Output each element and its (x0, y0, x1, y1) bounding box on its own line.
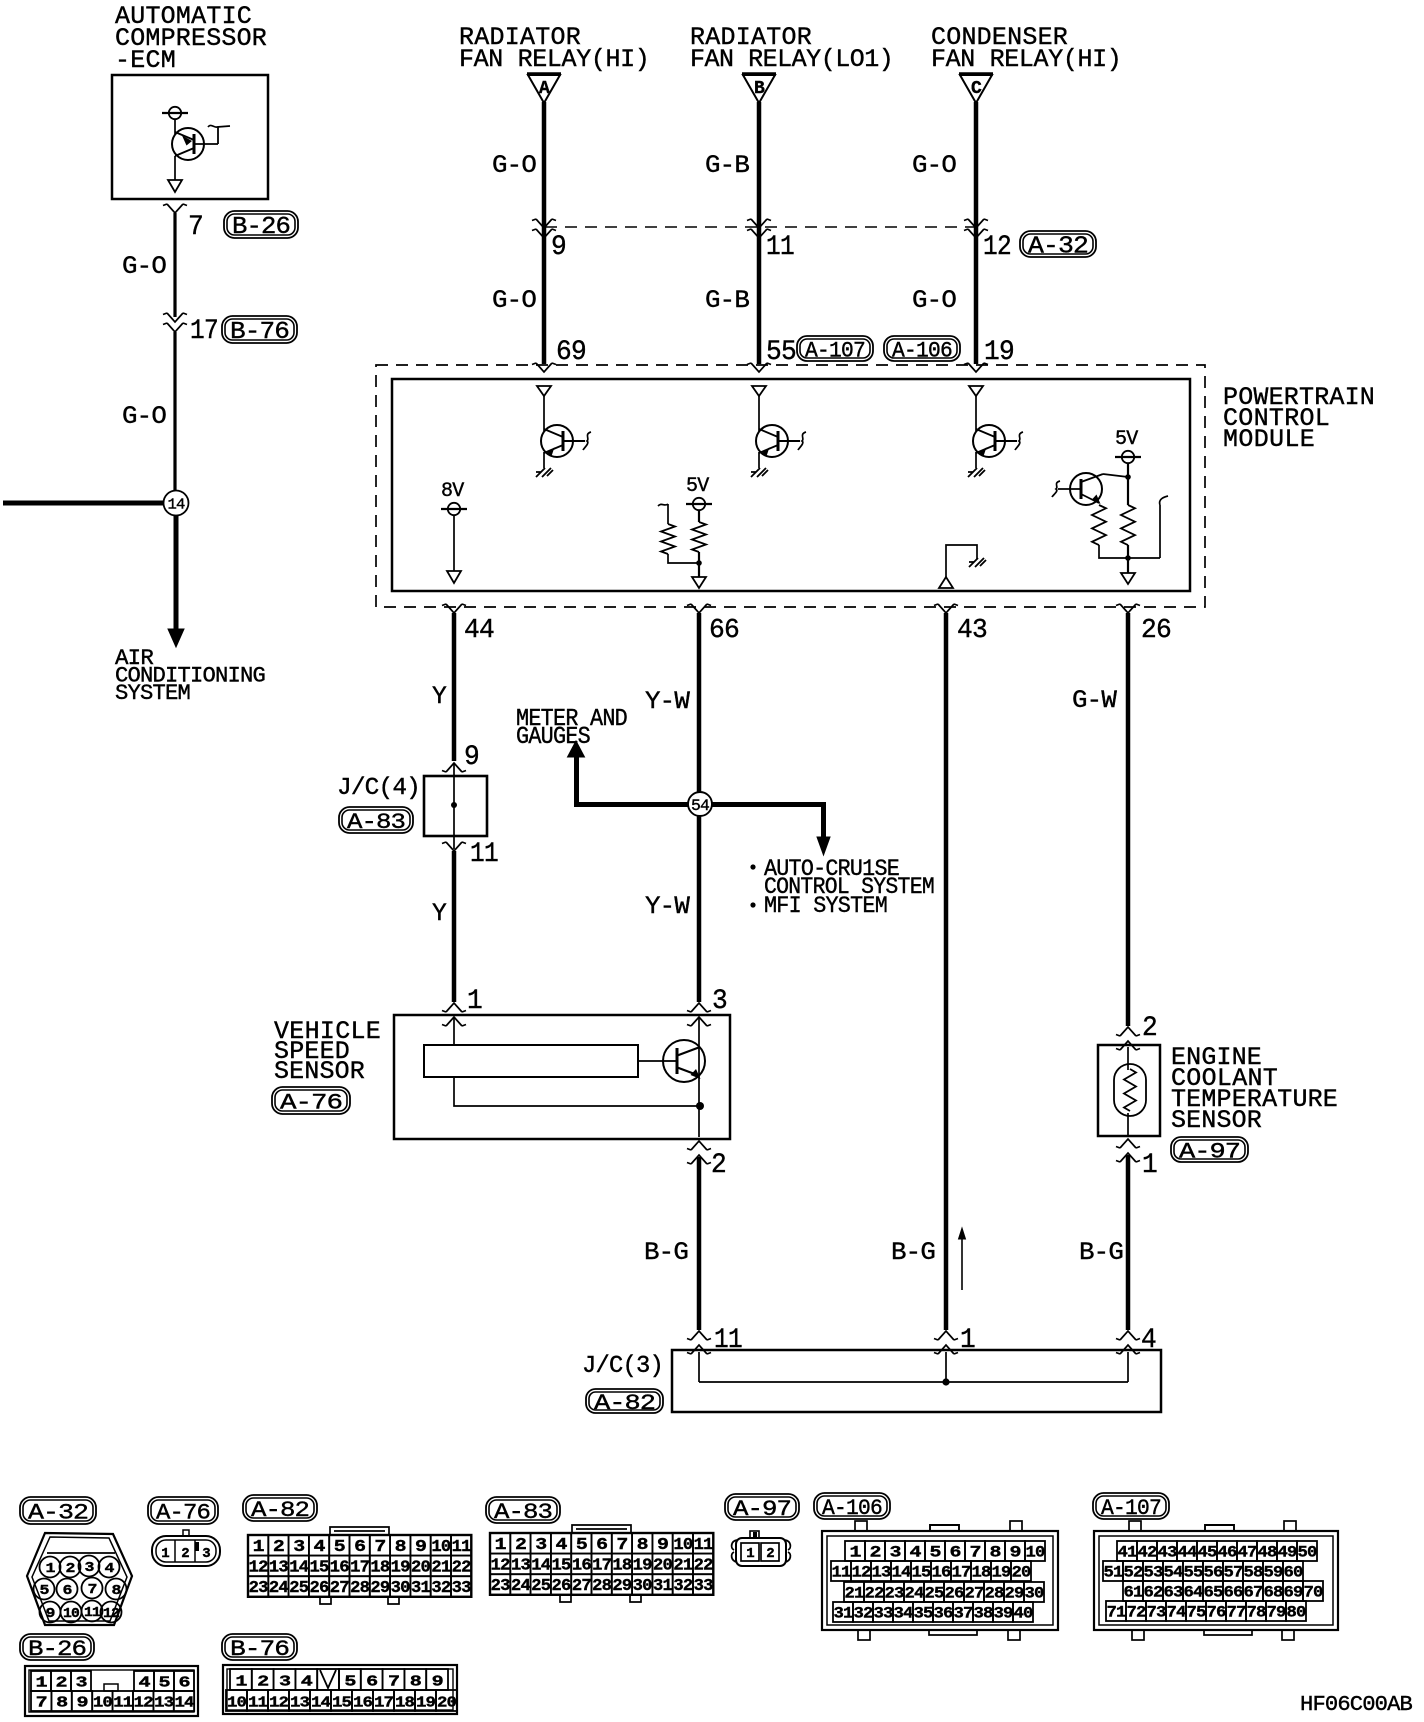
5V supply right (1115, 428, 1141, 463)
wire J/C3 bus (699, 1381, 1128, 1383)
connector label A-82 (243, 1495, 317, 1523)
svg-text:20: 20 (437, 1694, 457, 1711)
svg-text:2: 2 (257, 1673, 269, 1690)
svg-text:39: 39 (994, 1604, 1013, 1622)
svg-text:16: 16 (572, 1557, 592, 1576)
wire B-G pin26 lower (1126, 1155, 1131, 1330)
svg-text:22: 22 (865, 1584, 884, 1602)
connector label A-106 (814, 1493, 890, 1521)
svg-text:18: 18 (395, 1694, 415, 1711)
svg-text:22: 22 (694, 1557, 714, 1576)
8V supply (441, 480, 467, 515)
svg-text:G-W: G-W (1072, 686, 1117, 715)
svg-text:80: 80 (1287, 1603, 1306, 1621)
svg-text:51: 51 (1104, 1563, 1123, 1581)
wire 8V to pin 44 (453, 515, 455, 571)
wire down to air conditioning system (174, 516, 179, 632)
connector label A-107 (1093, 1493, 1169, 1521)
svg-text:53: 53 (1144, 1563, 1163, 1581)
resistor R4 (left, from Q4 emitter) (1092, 505, 1106, 545)
svg-text:27: 27 (965, 1584, 984, 1602)
connector label A-83 (486, 1497, 560, 1525)
wire VSS pin1 internal lower (454, 1077, 699, 1106)
svg-text:60: 60 (1284, 1563, 1303, 1581)
VSS pin 3 entry chevrons (687, 1003, 711, 1026)
PCM exit chevron pin 43 (934, 604, 958, 613)
svg-text:6: 6 (63, 1583, 72, 1599)
svg-text:Y: Y (432, 899, 447, 928)
wire A G-O upper (542, 102, 547, 364)
svg-text:9: 9 (77, 1694, 89, 1711)
svg-text:1: 1 (235, 1673, 247, 1690)
svg-text:4: 4 (139, 1674, 151, 1691)
connector label A-32 (20, 1497, 96, 1525)
svg-text:FAN RELAY(HI): FAN RELAY(HI) (931, 45, 1121, 74)
svg-text:37: 37 (954, 1604, 973, 1622)
svg-text:9: 9 (46, 1606, 55, 1622)
svg-text:68: 68 (1264, 1583, 1283, 1601)
transistor Q3 (cond fan hi) (973, 425, 1023, 457)
svg-text:A: A (539, 79, 550, 99)
svg-text:28: 28 (350, 1579, 370, 1598)
label POWERTRAIN CONTROL MODULE (1223, 383, 1374, 454)
wire R4 bottom (1099, 545, 1160, 558)
svg-text:8: 8 (637, 1536, 649, 1555)
svg-text:38: 38 (974, 1604, 993, 1622)
svg-text:12: 12 (249, 1559, 269, 1578)
svg-text:31: 31 (834, 1604, 853, 1622)
svg-text:1: 1 (495, 1536, 507, 1555)
svg-text:MODULE: MODULE (1223, 425, 1314, 454)
junction circle 54 (688, 792, 712, 816)
resistor thermistor ECT (1124, 1069, 1136, 1111)
svg-text:2: 2 (66, 1561, 75, 1577)
svg-text:A-76: A-76 (156, 1500, 210, 1525)
connector label A-83 inline (339, 807, 413, 835)
svg-text:12: 12 (491, 1557, 511, 1576)
svg-text:29: 29 (1005, 1584, 1024, 1602)
svg-text:66: 66 (1224, 1583, 1243, 1601)
svg-text:15: 15 (310, 1559, 330, 1578)
svg-text:1: 1 (46, 1561, 55, 1577)
svg-text:22: 22 (452, 1559, 472, 1578)
connector 11 chevrons on wire B (747, 219, 771, 238)
svg-text:11: 11 (766, 232, 794, 263)
svg-text:65: 65 (1204, 1583, 1223, 1601)
svg-text:32: 32 (854, 1604, 873, 1622)
svg-text:G-O: G-O (122, 402, 166, 431)
svg-text:8: 8 (395, 1538, 407, 1557)
svg-text:Y: Y (432, 682, 447, 711)
resistor R3 (right) (1121, 505, 1135, 545)
connector B-26 housing (25, 1666, 198, 1716)
svg-text:79: 79 (1267, 1603, 1286, 1621)
svg-text:B: B (754, 79, 765, 99)
svg-text:HF06C00AB: HF06C00AB (1300, 1694, 1412, 1717)
label AUTOMATIC COMPRESSOR-ECM (115, 2, 267, 75)
svg-text:B-76: B-76 (230, 1637, 289, 1662)
svg-text:6: 6 (596, 1536, 608, 1555)
hook to internal circuit left resistor (658, 504, 668, 524)
svg-text:23: 23 (491, 1577, 511, 1596)
connector label A-76 inline (272, 1087, 350, 1115)
svg-text:30: 30 (391, 1579, 411, 1598)
svg-text:45: 45 (1198, 1543, 1217, 1561)
wire to pin 26 triangle (1127, 545, 1129, 573)
transistor ECM (PNP) (172, 125, 230, 160)
svg-text:32: 32 (431, 1579, 451, 1598)
junction dot Q4 collector (1125, 474, 1131, 480)
svg-text:56: 56 (1204, 1563, 1223, 1581)
wire B-G pin66 lower (697, 1157, 702, 1330)
connector 11 chevron J/C4 (442, 842, 466, 851)
svg-text:8: 8 (56, 1694, 68, 1711)
svg-text:3: 3 (535, 1536, 547, 1555)
svg-text:24: 24 (269, 1579, 289, 1598)
svg-text:5: 5 (930, 1543, 941, 1561)
svg-text:B-G: B-G (644, 1238, 688, 1267)
svg-text:33: 33 (452, 1579, 472, 1598)
svg-text:14: 14 (892, 1563, 912, 1581)
svg-text:A-107: A-107 (1101, 1496, 1161, 1521)
svg-text:75: 75 (1187, 1603, 1206, 1621)
connector A-106 housing (822, 1521, 1058, 1640)
svg-text:2: 2 (711, 1150, 726, 1181)
svg-text:73: 73 (1147, 1603, 1166, 1621)
svg-text:74: 74 (1167, 1603, 1187, 1621)
svg-text:G-O: G-O (492, 286, 536, 315)
power feed symbol in ECM (162, 107, 188, 119)
PCM pin 69 chevron (532, 363, 556, 372)
svg-text:3: 3 (85, 1560, 94, 1576)
svg-text:1: 1 (850, 1543, 861, 1561)
svg-text:3: 3 (76, 1674, 88, 1691)
connector label B-26 inline (224, 211, 298, 241)
svg-text:5: 5 (576, 1536, 588, 1555)
svg-text:26: 26 (552, 1577, 572, 1596)
wire Q4 collector to 5V node (1103, 474, 1128, 477)
svg-text:3: 3 (293, 1538, 305, 1557)
svg-text:1: 1 (960, 1325, 975, 1356)
svg-text:8V: 8V (441, 480, 464, 503)
svg-text:A-32: A-32 (28, 1500, 88, 1525)
junction dot J/C4 (451, 802, 457, 808)
svg-text:17: 17 (952, 1563, 971, 1581)
junction block J/C(4) box (424, 776, 487, 836)
svg-text:4: 4 (314, 1538, 326, 1557)
VSS pin 1 entry chevrons (442, 1003, 466, 1026)
svg-text:7: 7 (88, 1582, 97, 1598)
svg-text:A-106: A-106 (892, 338, 952, 363)
connector triangle B (742, 74, 776, 103)
junction circle 14 (164, 491, 189, 516)
svg-text:52: 52 (1124, 1563, 1143, 1581)
svg-text:B-26: B-26 (28, 1637, 86, 1662)
svg-text:19: 19 (416, 1694, 436, 1711)
svg-text:20: 20 (1012, 1563, 1031, 1581)
svg-text:14: 14 (168, 497, 186, 514)
svg-text:SENSOR: SENSOR (274, 1057, 365, 1086)
output triangle ECM (168, 180, 182, 192)
svg-text:1: 1 (253, 1538, 265, 1557)
svg-text:18: 18 (370, 1559, 390, 1578)
connector label A-107 inline (797, 336, 873, 363)
wire G-O ECM segment1 (173, 213, 176, 317)
svg-text:30: 30 (633, 1577, 653, 1596)
dashed connector line A-32 (545, 226, 976, 228)
svg-text:64: 64 (1184, 1583, 1204, 1601)
svg-text:17: 17 (350, 1559, 370, 1578)
svg-text:33: 33 (694, 1577, 714, 1596)
J/C3 pin 4 entry chevrons (1116, 1331, 1140, 1354)
ECT pin 1 exit chevrons (1116, 1139, 1140, 1162)
svg-text:5: 5 (159, 1674, 171, 1691)
svg-text:12: 12 (983, 232, 1011, 263)
svg-text:5V: 5V (1115, 428, 1138, 451)
svg-text:4: 4 (105, 1561, 114, 1577)
J/C3 pin 1 entry chevrons (934, 1331, 958, 1354)
svg-text:12: 12 (852, 1563, 871, 1581)
svg-text:17: 17 (592, 1557, 612, 1576)
svg-text:4: 4 (556, 1536, 568, 1555)
arrow to auto-cruise/MFI (817, 837, 830, 855)
ground Q1 (543, 452, 545, 468)
connector A-76 housing (152, 1530, 220, 1566)
svg-text:1: 1 (161, 1546, 169, 1562)
transistor Q5 VSS (663, 1040, 705, 1082)
svg-text:A-106: A-106 (822, 1496, 882, 1521)
label ENGINE COOLANT TEMPERATURE SENSOR (1171, 1043, 1337, 1135)
PCM exit chevron pin 26 (1116, 604, 1140, 613)
wire through J/C4 (453, 763, 455, 849)
svg-text:43: 43 (957, 616, 987, 646)
svg-text:15: 15 (552, 1557, 572, 1576)
wire J/C3 internal 1 (945, 1352, 947, 1382)
svg-text:MFI SYSTEM: MFI SYSTEM (764, 893, 887, 919)
svg-text:9: 9 (464, 742, 479, 773)
svg-text:A-83: A-83 (494, 1500, 552, 1525)
connector 9 chevron J/C4 (442, 763, 466, 772)
svg-text:B-26: B-26 (232, 214, 290, 241)
ECT pin 2 entry chevrons (1116, 1027, 1140, 1050)
svg-text:A-82: A-82 (594, 1391, 655, 1416)
junction block J/C(3) box (672, 1350, 1161, 1412)
wire pin 19 to transistor (975, 396, 977, 431)
svg-text:6: 6 (179, 1674, 191, 1691)
inline connector 17 chevrons (163, 313, 187, 332)
connector B-76 housing (223, 1665, 457, 1714)
svg-text:A-32: A-32 (1028, 234, 1088, 261)
transistor Q1 (rad fan hi) (541, 425, 591, 457)
output triangle pin 66 (692, 577, 706, 588)
connector label B-76 inline (222, 316, 297, 346)
svg-text:-ECM: -ECM (115, 46, 175, 75)
VSS pin 2 exit chevrons (687, 1141, 711, 1164)
svg-text:10: 10 (431, 1538, 451, 1557)
svg-text:13: 13 (290, 1694, 310, 1711)
connector triangle C (959, 74, 993, 103)
wire ECT internal top (1127, 1047, 1129, 1070)
svg-text:3: 3 (712, 986, 727, 1017)
svg-text:40: 40 (1014, 1604, 1033, 1622)
svg-text:7: 7 (616, 1536, 628, 1555)
svg-text:G-O: G-O (912, 151, 956, 180)
wire VSS pin1 internal upper (453, 1017, 455, 1045)
svg-text:11: 11 (832, 1563, 851, 1581)
svg-text:35: 35 (914, 1604, 933, 1622)
PCM pin 55 chevron (747, 363, 771, 372)
svg-text:11: 11 (248, 1694, 268, 1711)
VSS pickup element box (424, 1045, 638, 1077)
connector B-76 keyway (317, 1669, 339, 1690)
output triangle pin 26 (1121, 573, 1135, 584)
wire G-O ECM segment2 (173, 332, 176, 491)
PCM pin 19 input triangle (969, 386, 983, 396)
svg-text:2: 2 (181, 1546, 189, 1562)
svg-text:28: 28 (592, 1577, 612, 1596)
svg-text:25: 25 (531, 1577, 551, 1596)
svg-text:7: 7 (374, 1538, 386, 1557)
svg-text:3: 3 (202, 1546, 210, 1562)
svg-text:14: 14 (311, 1694, 331, 1711)
svg-text:2: 2 (1142, 1013, 1157, 1044)
svg-text:J/C(3): J/C(3) (582, 1353, 663, 1380)
svg-text:6: 6 (366, 1673, 378, 1690)
svg-text:10: 10 (63, 1606, 79, 1622)
svg-text:1: 1 (1142, 1150, 1157, 1181)
svg-text:23: 23 (885, 1584, 904, 1602)
svg-text:62: 62 (1144, 1583, 1163, 1601)
junction dot R3/R4 (1125, 555, 1131, 561)
wire thick to air conditioning branch (3, 501, 164, 506)
svg-text:11: 11 (470, 839, 498, 870)
label VEHICLE SPEED SENSOR (274, 1017, 380, 1086)
svg-text:7: 7 (188, 212, 203, 243)
wire VSS pin3 internal (698, 1017, 700, 1106)
connector label A-32 inline (1020, 231, 1096, 261)
svg-text:7: 7 (388, 1673, 399, 1690)
svg-text:12: 12 (103, 1606, 119, 1622)
svg-text:27: 27 (572, 1577, 592, 1596)
svg-text:4: 4 (910, 1543, 922, 1561)
svg-text:13: 13 (511, 1557, 531, 1576)
svg-text:Y-W: Y-W (645, 892, 690, 921)
PCM dashed boundary box (376, 365, 1205, 607)
svg-text:61: 61 (1124, 1583, 1143, 1601)
svg-text:24: 24 (905, 1584, 925, 1602)
svg-text:76: 76 (1207, 1603, 1226, 1621)
svg-text:17: 17 (374, 1694, 393, 1711)
connector A-82 housing (320, 1527, 399, 1604)
label CONDENSER FAN RELAY(HI) (931, 23, 1121, 74)
svg-text:G-O: G-O (492, 151, 536, 180)
svg-text:10: 10 (1026, 1543, 1045, 1561)
transistor Q2 (rad fan lo) (756, 425, 806, 457)
svg-text:11: 11 (113, 1694, 133, 1711)
svg-text:7: 7 (970, 1543, 981, 1561)
connector label B-76 (222, 1634, 297, 1662)
svg-text:6: 6 (354, 1538, 366, 1557)
svg-text:34: 34 (894, 1604, 914, 1622)
internal hook pin 43 (946, 545, 977, 577)
svg-text:28: 28 (985, 1584, 1004, 1602)
label AIR CONDITIONING SYSTEM (115, 646, 265, 706)
svg-text:3: 3 (890, 1543, 901, 1561)
wire B-G pin43 (944, 613, 949, 1330)
svg-text:17: 17 (190, 316, 218, 347)
wire ECT internal bottom (1127, 1113, 1129, 1135)
wire VSS base (638, 1060, 663, 1062)
svg-text:2: 2 (56, 1674, 68, 1691)
svg-text:2: 2 (870, 1543, 881, 1561)
svg-text:11: 11 (694, 1536, 714, 1555)
PCM exit chevron pin 66 (687, 604, 711, 613)
svg-text:G-O: G-O (122, 252, 166, 281)
wire Y pin44 upper (452, 613, 457, 761)
svg-text:15: 15 (332, 1694, 352, 1711)
svg-text:1: 1 (467, 986, 482, 1017)
svg-text:58: 58 (1244, 1563, 1263, 1581)
wire R2 bottom join (668, 554, 699, 563)
svg-text:55: 55 (766, 337, 796, 368)
svg-text:77: 77 (1227, 1603, 1246, 1621)
wire G-W pin26 (1126, 613, 1131, 1026)
label RADIATOR FAN RELAY(LO1) (690, 23, 893, 74)
svg-text:21: 21 (845, 1584, 864, 1602)
svg-text:29: 29 (612, 1577, 632, 1596)
svg-text:71: 71 (1107, 1603, 1126, 1621)
connector 9 chevrons on wire A (532, 219, 556, 238)
svg-text:31: 31 (411, 1579, 431, 1598)
svg-text:9: 9 (551, 232, 566, 263)
svg-text:50: 50 (1298, 1543, 1317, 1561)
svg-text:10: 10 (227, 1694, 247, 1711)
svg-text:67: 67 (1244, 1583, 1263, 1601)
svg-text:8: 8 (112, 1583, 121, 1599)
svg-text:26: 26 (1141, 616, 1171, 646)
svg-text:B-76: B-76 (230, 319, 289, 346)
wire B G-B upper (757, 102, 762, 364)
svg-text:2: 2 (515, 1536, 527, 1555)
connector label A-106 inline (884, 336, 960, 363)
svg-text:23: 23 (249, 1579, 269, 1598)
transistor Q4 (coolant temp input) (1052, 473, 1103, 505)
svg-text:69: 69 (556, 337, 586, 368)
wire VSS to pin2 (698, 1106, 700, 1137)
wire ECM internal (174, 119, 176, 134)
svg-text:72: 72 (1127, 1603, 1146, 1621)
PCM pin 19 chevron (964, 363, 988, 372)
connector A-83 housing (560, 1525, 641, 1602)
svg-text:20: 20 (653, 1557, 673, 1576)
connector triangle A (527, 74, 561, 103)
svg-text:70: 70 (1304, 1583, 1323, 1601)
engine coolant temperature sensor box (1098, 1045, 1160, 1136)
svg-text:4: 4 (1141, 1325, 1156, 1356)
svg-text:21: 21 (673, 1557, 693, 1576)
label RADIATOR FAN RELAY(HI) (459, 23, 649, 74)
svg-text:C: C (971, 79, 982, 99)
connector label B-26 (20, 1634, 94, 1662)
J/C3 pin 11 entry chevrons (687, 1331, 711, 1354)
svg-text:10: 10 (93, 1694, 113, 1711)
svg-text:49: 49 (1278, 1543, 1297, 1561)
svg-text:44: 44 (1178, 1543, 1198, 1561)
svg-text:SYSTEM: SYSTEM (115, 681, 190, 706)
svg-text:69: 69 (1284, 1583, 1303, 1601)
svg-text:2: 2 (766, 1546, 774, 1562)
junction dot J/C3 (942, 1378, 949, 1385)
